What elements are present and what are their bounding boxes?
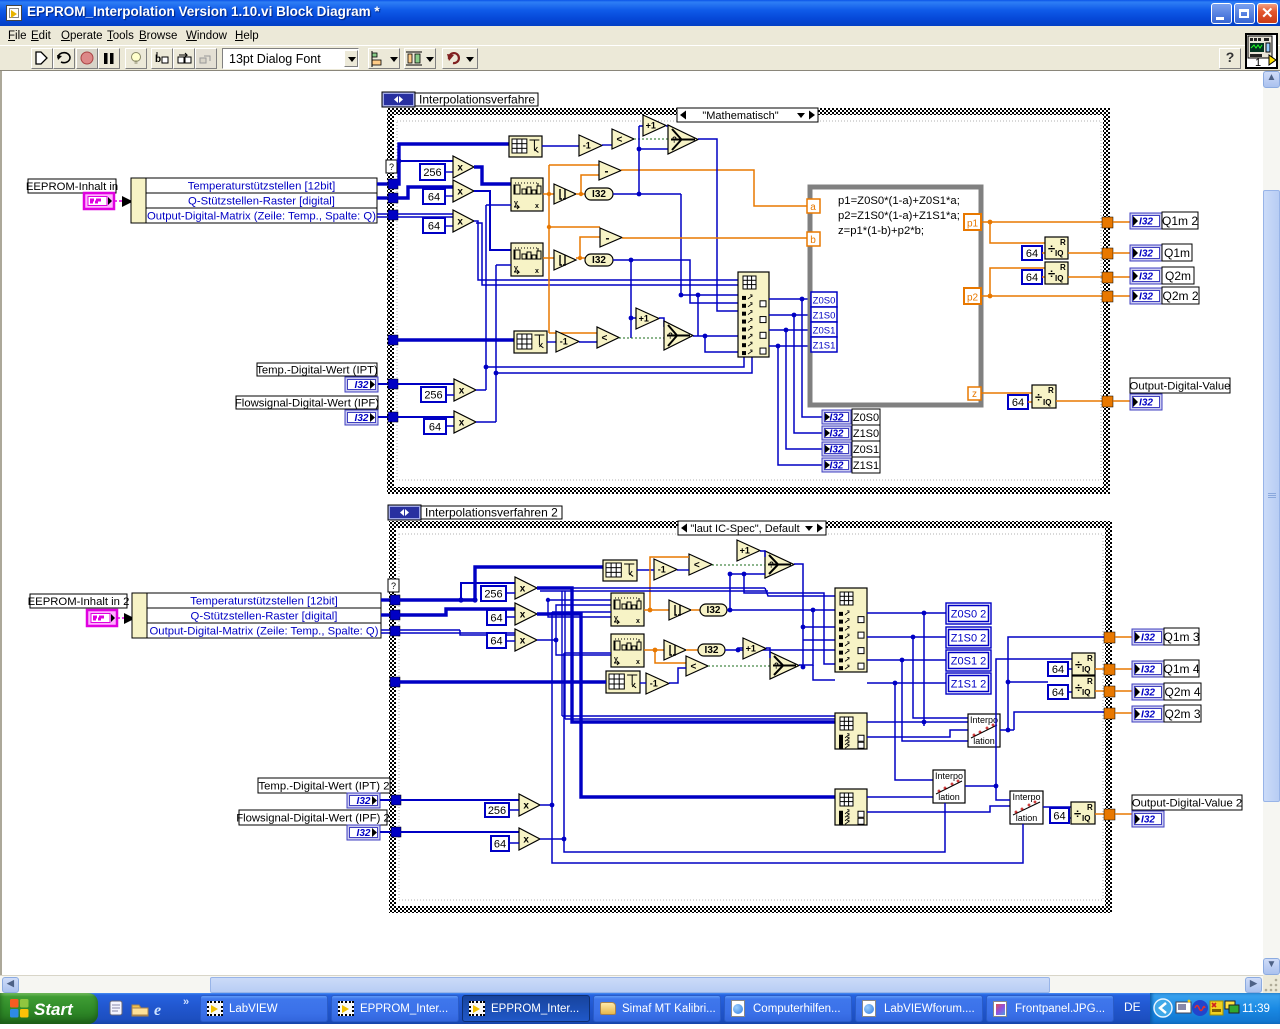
formula text xyxy=(838,195,960,237)
wires tunnels to indicators bottom xyxy=(1115,637,1132,814)
constant 64 b1 xyxy=(487,610,506,625)
svg-text:+1: +1 xyxy=(746,644,756,654)
Z1S0 indicator row xyxy=(822,425,880,441)
svg-text:b: b xyxy=(810,235,816,246)
multiply bx5 xyxy=(509,828,540,850)
orange search1 to floor1 xyxy=(543,165,600,333)
vertical scrollbar xyxy=(1263,71,1280,975)
svg-text:Z0S1: Z0S1 xyxy=(853,444,879,456)
wire to search node row2 xyxy=(546,598,611,617)
svg-text:Z0S0 2: Z0S0 2 xyxy=(951,608,986,620)
wire I32-2 out to index array xyxy=(613,258,738,303)
svg-text:I32: I32 xyxy=(592,255,606,266)
wire 64a to multiply xyxy=(445,195,453,197)
wire 64c to x5 xyxy=(446,425,454,427)
svg-text:I32: I32 xyxy=(830,413,844,424)
I32 oval b1 xyxy=(691,604,727,616)
select 1 xyxy=(668,125,698,154)
indicator Z0S1 2 xyxy=(946,650,991,671)
tunnel matrix lower xyxy=(388,335,398,345)
svg-text:Interpo: Interpo xyxy=(935,771,963,781)
svg-text:64: 64 xyxy=(428,220,440,232)
svg-text:+1: +1 xyxy=(639,314,649,324)
svg-text:x: x xyxy=(535,203,539,210)
svg-text:-: - xyxy=(604,164,608,178)
svg-text:lation: lation xyxy=(1016,813,1038,823)
unbundle by name node xyxy=(131,178,377,223)
node: EEPROM-Inhalt in label xyxy=(26,179,118,193)
wires index b3 out xyxy=(867,797,1010,812)
orange b2 xyxy=(644,648,686,663)
tunnel out b y632 xyxy=(1104,632,1115,643)
formula input Z1S0 xyxy=(811,307,837,322)
svg-text:<: < xyxy=(617,135,623,146)
wire gridT2 to decrement2 xyxy=(547,341,556,343)
label Flowsignal-Digital-Wert (IPF) 2 xyxy=(236,810,390,825)
boolean wire to select xyxy=(634,138,668,140)
indicator Z0S0 2 xyxy=(946,603,991,624)
svg-text:?: ? xyxy=(769,561,774,570)
search array node 1 xyxy=(511,178,543,211)
to-I32 oval 1 xyxy=(585,188,613,200)
svg-text:I32: I32 xyxy=(830,461,844,472)
svg-text:<: < xyxy=(602,333,608,344)
svg-text:Q1m: Q1m xyxy=(1164,246,1190,260)
decrement b1 xyxy=(654,559,677,580)
svg-text:Z1S0: Z1S0 xyxy=(853,428,879,440)
wire p1 out xyxy=(981,220,1102,243)
orange b1 xyxy=(644,557,689,612)
tunnel p2 xyxy=(964,288,981,304)
svg-text:Temperaturstützstellen [12bit]: Temperaturstützstellen [12bit] xyxy=(188,181,336,193)
taskbar xyxy=(0,993,1280,1024)
search array node 2 xyxy=(511,243,543,276)
quotient-remainder 2 xyxy=(1045,262,1068,284)
interpolation subvi 2 xyxy=(933,770,965,803)
interp2 out wires xyxy=(965,659,1072,800)
floor b1 xyxy=(669,600,691,620)
svg-text:Output-Digital-Matrix (Zeile:: Output-Digital-Matrix (Zeile: Temp., Spa… xyxy=(150,626,379,638)
tunnel row1 xyxy=(388,179,398,189)
svg-text:+1: +1 xyxy=(646,121,656,131)
interpolate icon b2 xyxy=(606,671,640,693)
svg-text:I32: I32 xyxy=(1139,398,1153,409)
IPF2 long wire xyxy=(400,831,519,833)
wire +1 to select xyxy=(666,125,668,127)
quotient-remainder b1 xyxy=(1072,653,1095,675)
svg-text:64: 64 xyxy=(1026,248,1038,260)
multiply x2 xyxy=(453,180,474,202)
inner case border 2 xyxy=(399,534,1103,900)
tunnel out y396 xyxy=(1102,396,1113,407)
svg-text:z=p1*(1-b)+p2*b;: z=p1*(1-b)+p2*b; xyxy=(838,225,924,237)
less than < xyxy=(612,129,634,149)
quotient-remainder 1 xyxy=(1045,237,1068,259)
wire p2 out xyxy=(981,268,1102,298)
qr b2 64 xyxy=(1048,685,1072,699)
floor b2 xyxy=(664,640,686,660)
cluster terminal 2 xyxy=(87,610,117,626)
case selector tunnel ? xyxy=(386,160,397,173)
search node b2 xyxy=(611,634,644,667)
index array node top xyxy=(738,272,769,357)
svg-text:64: 64 xyxy=(428,191,440,203)
indicator Z1S1 2 xyxy=(946,673,991,694)
svg-text:IQ: IQ xyxy=(1082,814,1090,823)
svg-text:x: x xyxy=(457,217,463,228)
svg-text:EEPROM-Inhalt in: EEPROM-Inhalt in xyxy=(26,181,118,193)
indicator Output-Digital-Value 2 xyxy=(1132,795,1242,827)
wire b-row1 paths xyxy=(399,567,603,603)
wires into index b1 xyxy=(803,627,835,640)
Z0S1 indicator row xyxy=(822,441,880,457)
svg-text:64: 64 xyxy=(1053,810,1065,822)
tunnel out b y809 xyxy=(1104,809,1115,820)
constant 64 lower xyxy=(424,419,446,434)
svg-text:64: 64 xyxy=(1052,664,1064,676)
wire IPT to tunnel xyxy=(378,383,392,385)
wire I32-1 out with branches xyxy=(613,126,681,196)
task button Computerhilfen... xyxy=(724,995,852,1022)
svg-text:I32: I32 xyxy=(355,413,369,424)
indicator Q1m 3 xyxy=(1132,628,1200,645)
index array node b1 xyxy=(835,588,867,672)
svg-text:÷: ÷ xyxy=(1074,806,1081,821)
svg-text:Temp.-Digital-Wert (IPT): Temp.-Digital-Wert (IPT) xyxy=(256,365,378,377)
svg-text:I32: I32 xyxy=(357,796,371,807)
wire z out xyxy=(981,392,1032,394)
formula input Z1S1 xyxy=(811,337,837,352)
constant 64 qr1 xyxy=(1022,246,1045,260)
formula input Z0S0 xyxy=(811,292,837,307)
indicator Q1m 4 xyxy=(1132,660,1200,677)
svg-text:Output-Digital-Value 2: Output-Digital-Value 2 xyxy=(1132,798,1242,810)
tunnel IPF2 xyxy=(391,827,401,837)
constant 64 b2 xyxy=(487,633,506,648)
multiply x1 xyxy=(453,156,474,178)
system tray xyxy=(1150,993,1280,1024)
wire I32b1 out xyxy=(727,572,835,613)
increment +1 lower xyxy=(636,308,659,329)
svg-text:Q2m 4: Q2m 4 xyxy=(1164,685,1200,699)
cluster terminal EEPROM-Inhalt in xyxy=(84,193,114,209)
index array node b2 xyxy=(835,713,867,749)
svg-text:x: x xyxy=(459,386,465,397)
tunnel a xyxy=(807,199,820,213)
tunnel IPF xyxy=(388,412,398,422)
svg-text:IQ: IQ xyxy=(1055,249,1063,258)
svg-text:?: ? xyxy=(672,136,677,145)
svg-text:p1=Z0S0*(1-a)+Z0S1*a;: p1=Z0S0*(1-a)+Z0S1*a; xyxy=(838,195,960,207)
svg-text:R: R xyxy=(1087,654,1093,663)
svg-text:I32: I32 xyxy=(1139,249,1153,260)
wire bx3 out to search nodes xyxy=(537,605,611,655)
to-I32 oval 2 xyxy=(585,254,613,266)
svg-text:I32: I32 xyxy=(1141,633,1155,644)
lower matrix wire to interpolate icon 2 xyxy=(397,338,514,341)
cluster wire 2 xyxy=(117,613,135,624)
svg-text:?: ? xyxy=(774,662,779,671)
I32 control IPT xyxy=(345,377,378,392)
constant 256 b-low xyxy=(485,803,509,817)
svg-text:lation: lation xyxy=(938,792,960,802)
wires down to Z indicators xyxy=(802,299,822,417)
svg-text:?: ? xyxy=(389,162,394,172)
svg-text:64: 64 xyxy=(490,635,502,647)
wire +1b to select2 xyxy=(659,318,664,327)
tunnel out b y686 xyxy=(1104,686,1115,697)
wire I32b2 out xyxy=(725,648,835,653)
decrement b2 xyxy=(646,673,669,694)
case selector "Mathematisch" xyxy=(677,108,818,122)
wire select1 out down to index array xyxy=(698,139,738,311)
multiply bx3 xyxy=(506,629,537,651)
svg-text:Output-Digital-Matrix (Zeile:: Output-Digital-Matrix (Zeile: Temp., Spa… xyxy=(147,211,376,223)
less b2 xyxy=(686,656,708,676)
matrix wire to gridT b2 xyxy=(399,680,606,683)
svg-text:Interpolationsverfahre: Interpolationsverfahre xyxy=(419,93,535,107)
svg-text:x: x xyxy=(457,187,463,198)
wire b-row2 paths xyxy=(399,609,515,615)
wire IPF to x5 xyxy=(397,416,454,418)
task button Frontpanel.JPG... xyxy=(986,995,1114,1022)
less b1 xyxy=(689,554,712,575)
extra vertical wire b xyxy=(742,572,835,664)
index array node b3 xyxy=(835,789,867,825)
indicator Output-Digital-Value xyxy=(1130,378,1231,410)
svg-text:x: x xyxy=(457,163,463,174)
subtract 1 xyxy=(599,161,621,180)
svg-text:Output-Digital-Value: Output-Digital-Value xyxy=(1130,381,1231,393)
tunnel out b y708 xyxy=(1104,708,1115,719)
search node b1 xyxy=(611,593,644,626)
svg-text:Interpo: Interpo xyxy=(970,715,998,725)
svg-text:a: a xyxy=(810,202,816,213)
label EEPROM-Inhalt in 2 xyxy=(28,594,130,608)
svg-text:Q2m 3: Q2m 3 xyxy=(1164,707,1200,721)
tunnel out y291 xyxy=(1102,291,1113,302)
wire -1b to less2 xyxy=(579,341,597,343)
start button xyxy=(0,993,98,1024)
wire 256b to x4 xyxy=(446,394,454,396)
boolean b2 xyxy=(708,665,770,667)
svg-text:I32: I32 xyxy=(705,645,719,656)
svg-text:Q1m 4: Q1m 4 xyxy=(1163,662,1199,676)
svg-text:256: 256 xyxy=(423,167,441,179)
orange floor2 branches xyxy=(576,237,600,260)
svg-text:p1: p1 xyxy=(967,219,979,230)
wire gridT1 to decrement xyxy=(542,145,579,147)
title bar xyxy=(0,0,1280,26)
svg-text:64: 64 xyxy=(494,838,506,850)
select 2 xyxy=(664,321,693,350)
tunnel b-row1 xyxy=(390,595,400,605)
select b1 xyxy=(765,551,794,578)
svg-text:I32: I32 xyxy=(1141,665,1155,676)
svg-text:<: < xyxy=(694,560,700,571)
svg-text:x: x xyxy=(636,618,640,625)
increment b1 xyxy=(737,540,760,561)
I32 control IPF xyxy=(345,410,378,425)
svg-text:z: z xyxy=(972,389,977,400)
toolbar xyxy=(0,46,1280,71)
interp1 out wires xyxy=(1000,637,1104,732)
increment +1 xyxy=(643,115,666,136)
orange wire to a tunnel xyxy=(621,170,808,206)
svg-text:I32: I32 xyxy=(1141,688,1155,699)
I32 control IPT 2 xyxy=(347,793,380,808)
svg-text:Q-Stützstellen-Raster [digital: Q-Stützstellen-Raster [digital] xyxy=(191,611,338,623)
case structure frame: Interpolationsverfahre xyxy=(387,108,1110,494)
constant 64 a xyxy=(423,189,445,204)
wire I32-1 down branch to index array xyxy=(679,194,738,336)
output wires b1 with dots xyxy=(867,611,946,616)
double pair to index node b1 xyxy=(540,588,835,719)
svg-text:x: x xyxy=(535,268,539,275)
svg-text:I32: I32 xyxy=(1141,815,1155,826)
svg-text:I32: I32 xyxy=(357,828,371,839)
Z1S1 indicator row xyxy=(822,457,880,473)
svg-text:+1: +1 xyxy=(740,546,750,556)
wire b-row3 paths xyxy=(399,630,515,635)
svg-text:Z1S0 2: Z1S0 2 xyxy=(951,632,986,644)
svg-text:I32: I32 xyxy=(592,189,606,200)
constant 256 xyxy=(420,164,445,180)
interpolate icon b1 xyxy=(603,560,637,581)
VI icon pane xyxy=(1245,33,1278,69)
label Temp.-Digital-Wert (IPT) 2 xyxy=(258,778,390,793)
svg-text:"laut IC-Spec", Default: "laut IC-Spec", Default xyxy=(690,523,799,535)
I32 control IPF 2 xyxy=(347,825,380,840)
boolean wire to select2 xyxy=(619,337,664,339)
svg-text:p2: p2 xyxy=(967,293,979,304)
tunnel row3 xyxy=(388,210,398,220)
structure label Interpolationsverfahren 2 xyxy=(388,505,562,520)
case selector tunnel ? 2 xyxy=(388,579,399,592)
wire x4 out xyxy=(476,205,744,390)
unbundle node 2 xyxy=(132,593,381,638)
wire IPF to tunnel xyxy=(378,416,392,418)
qr b1 64 xyxy=(1048,662,1072,676)
constant 256 lower xyxy=(421,387,446,402)
wire to lower select cluster xyxy=(629,260,636,338)
constant 256 b xyxy=(481,586,506,601)
wire +1b2 to select2 xyxy=(766,648,770,658)
svg-text:x: x xyxy=(523,801,529,812)
svg-text:÷: ÷ xyxy=(1035,390,1042,405)
svg-text:IQ: IQ xyxy=(1082,665,1090,674)
svg-text:Q-Stützstellen-Raster [digital: Q-Stützstellen-Raster [digital] xyxy=(188,196,335,208)
wire unbundle row3 matrix to tunnel xyxy=(377,214,392,217)
wire -1 to less xyxy=(602,144,612,146)
wire bx2 out down xyxy=(537,614,835,797)
tunnel row2 xyxy=(388,193,398,203)
svg-text:Temp.-Digital-Wert (IPT) 2: Temp.-Digital-Wert (IPT) 2 xyxy=(259,781,390,793)
vertical drops to interp nodes xyxy=(895,613,968,780)
svg-text:Z0S0: Z0S0 xyxy=(853,412,879,424)
svg-text:Z1S0: Z1S0 xyxy=(813,311,836,322)
svg-text:Flowsignal-Digital-Wert (IPF): Flowsignal-Digital-Wert (IPF) 2 xyxy=(236,813,390,825)
indicator Q2m 3 xyxy=(1132,705,1201,722)
wire qr1 to tunnel xyxy=(1068,252,1102,254)
quotient-remainder b2 xyxy=(1072,676,1095,698)
svg-text:Temperaturstützstellen [12bit]: Temperaturstützstellen [12bit] xyxy=(190,596,338,608)
multiply bx4 xyxy=(509,794,540,816)
multiply 256 IPT xyxy=(397,383,454,385)
svg-text:Q2m: Q2m xyxy=(1165,269,1191,283)
wire x5 out xyxy=(476,265,752,422)
svg-text:x: x xyxy=(520,636,526,647)
tunnel IPT xyxy=(388,379,398,389)
svg-text:lation: lation xyxy=(973,736,995,746)
svg-text:Z1S1: Z1S1 xyxy=(813,341,836,352)
tunnel out y272 xyxy=(1102,272,1113,283)
svg-text:x: x xyxy=(520,610,526,621)
svg-text:Q1m 2: Q1m 2 xyxy=(1162,214,1198,228)
wires unbundle2 to tunnels xyxy=(381,600,394,633)
task button LabVIEWforum.... xyxy=(855,995,983,1022)
svg-text:I32: I32 xyxy=(1139,292,1153,303)
wire +1b1 to select xyxy=(760,551,765,557)
svg-text:-1: -1 xyxy=(650,679,658,689)
wire qr3 to tunnel xyxy=(1056,400,1102,402)
wire unbundle row1 to tunnel xyxy=(377,182,392,185)
tunnel out b y664 xyxy=(1104,664,1115,675)
svg-text:-: - xyxy=(605,231,609,245)
constant 64 b-low xyxy=(491,836,509,851)
structure label Interpolationsverfahre xyxy=(382,92,538,107)
task button Simaf MT Kalibri... xyxy=(593,995,721,1022)
tunnel b-row3 xyxy=(390,626,400,636)
svg-text:R: R xyxy=(1060,263,1066,272)
wire x3 out down to index array xyxy=(474,221,738,285)
wire qr2 to tunnel xyxy=(1068,276,1102,278)
tunnel matrix b lower xyxy=(390,677,400,687)
task button EPPROM_Inter... xyxy=(331,995,459,1022)
Z0S0 indicator row xyxy=(822,409,880,425)
tunnel z xyxy=(968,387,981,400)
quick launch xyxy=(108,999,186,1018)
svg-text:IQ: IQ xyxy=(1082,688,1090,697)
svg-text:-1: -1 xyxy=(658,565,666,575)
svg-text:p2=Z1S0*(1-a)+Z1S1*a;: p2=Z1S0*(1-a)+Z1S1*a; xyxy=(838,210,960,222)
svg-text:I32: I32 xyxy=(1139,272,1153,283)
svg-text:I32: I32 xyxy=(1139,217,1153,228)
interpolate array icon 1 xyxy=(509,136,542,157)
svg-text:Z0S1 2: Z0S1 2 xyxy=(951,655,986,667)
wire 256 to multiply xyxy=(445,171,453,173)
cluster wire xyxy=(114,196,133,207)
svg-text:x: x xyxy=(523,835,529,846)
wires index b2 out to interp1 xyxy=(867,720,968,737)
wires index array outputs to formula tunnels xyxy=(769,297,811,302)
decrement -1 lower xyxy=(556,331,579,352)
tunnel p1 xyxy=(964,214,981,230)
task button EPPROM_Inter... xyxy=(462,995,590,1022)
increment b2 xyxy=(743,638,766,659)
svg-text:Z0S1: Z0S1 xyxy=(813,326,836,337)
svg-text:256: 256 xyxy=(484,588,502,600)
svg-text:Q2m 2: Q2m 2 xyxy=(1162,289,1198,303)
IPT2 long wire xyxy=(400,799,519,801)
indicator Q1m xyxy=(1130,244,1192,261)
case selector "laut IC-Spec", Default xyxy=(678,521,826,535)
decrement -1 xyxy=(579,135,602,156)
orange wire to b tunnel xyxy=(622,237,808,239)
orange floor1 to I32 xyxy=(576,175,599,196)
multiply x5 xyxy=(454,411,476,433)
svg-text:"Mathematisch": "Mathematisch" xyxy=(702,110,778,122)
